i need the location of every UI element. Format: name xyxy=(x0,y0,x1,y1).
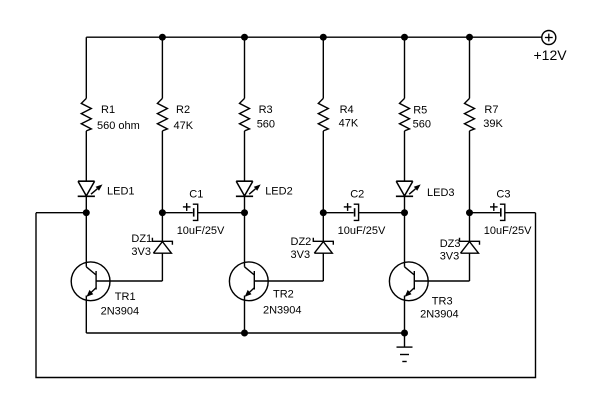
svg-text:DZ3: DZ3 xyxy=(440,238,461,250)
wire feedback loop (C3 right, bottom, left) xyxy=(36,213,536,378)
svg-text:R4: R4 xyxy=(340,104,354,116)
wire R4 to node D xyxy=(322,131,324,213)
transistor TR1 collector lead xyxy=(85,213,87,267)
LED LED3 triangle xyxy=(396,181,413,196)
resistor R5 xyxy=(400,98,410,130)
svg-text:560: 560 xyxy=(257,119,275,131)
svg-text:R5: R5 xyxy=(413,104,427,116)
wire rail to R3 xyxy=(244,37,246,98)
LED LED2 cathode bar xyxy=(236,195,253,197)
transistor TR3 base bar xyxy=(413,271,415,290)
wire rail to R5 xyxy=(404,37,406,98)
svg-text:R7: R7 xyxy=(484,104,498,116)
zener diode DZ2 triangle xyxy=(314,242,332,254)
zener diode DZ1 cathode bar xyxy=(152,238,172,245)
wire LED2 to node C xyxy=(244,196,246,212)
svg-text:2N3904: 2N3904 xyxy=(420,308,459,320)
svg-text:2N3904: 2N3904 xyxy=(263,305,302,317)
wire DZ2 to TR2 base row xyxy=(322,253,324,281)
transistor TR2 circle xyxy=(229,262,268,301)
node E (LED3 cathode / TR3 collector) xyxy=(401,209,408,216)
wire R2 to node B xyxy=(161,131,163,213)
svg-text:C3: C3 xyxy=(496,189,510,201)
transistor TR1 base bar xyxy=(95,271,97,290)
junction rail/R2 xyxy=(159,34,166,41)
LED LED2 anode bar xyxy=(236,180,253,182)
wire C3 right lead xyxy=(505,212,536,214)
wire DZ3 to TR3 base row xyxy=(469,253,471,281)
transistor TR3 emitter lead with arrow xyxy=(406,288,415,296)
svg-text:47K: 47K xyxy=(174,120,194,132)
LED LED3 cathode bar xyxy=(396,195,413,197)
wire to ground xyxy=(404,333,406,347)
zener diode DZ2 cathode bar xyxy=(313,238,333,245)
zener diode DZ3 cathode bar xyxy=(460,238,480,245)
svg-text:3V3: 3V3 xyxy=(131,246,151,258)
wire rail to R4 xyxy=(322,37,324,98)
wire C2 right lead xyxy=(359,212,405,214)
wire R3 to LED2 xyxy=(244,131,246,181)
zener diode DZ1 triangle xyxy=(153,242,171,254)
svg-text:LED1: LED1 xyxy=(107,186,135,198)
transistor TR2 emitter lead with arrow xyxy=(246,288,255,296)
wire node F to DZ3 xyxy=(469,213,471,242)
svg-text:TR2: TR2 xyxy=(273,289,294,301)
svg-text:C1: C1 xyxy=(189,189,203,201)
transistor TR2 base bar xyxy=(253,271,255,290)
wire node B to DZ1 xyxy=(161,213,163,242)
wire LED1 to node A xyxy=(85,196,87,212)
LED LED1 arrow xyxy=(91,189,97,194)
svg-text:10uF/25V: 10uF/25V xyxy=(338,225,386,237)
LED LED3 anode bar xyxy=(396,180,413,182)
svg-text:TR1: TR1 xyxy=(115,291,136,303)
svg-text:39K: 39K xyxy=(483,118,503,130)
LED LED1 triangle xyxy=(78,181,95,196)
transistor TR1 circle xyxy=(71,262,110,301)
wire feedback to node A xyxy=(36,212,86,214)
svg-text:C2: C2 xyxy=(350,189,364,201)
wire R1 to LED1 xyxy=(85,131,87,181)
LED LED1 anode bar xyxy=(78,180,95,182)
transistor TR3 circle xyxy=(389,262,428,301)
transistor TR2 collector lead xyxy=(244,213,246,267)
LED LED3 arrow xyxy=(409,189,415,194)
svg-text:2N3904: 2N3904 xyxy=(101,305,140,317)
svg-text:LED2: LED2 xyxy=(265,186,293,198)
wire DZ1 to TR1 base row xyxy=(161,253,163,281)
transistor TR3 collector lead xyxy=(404,213,406,267)
svg-text:DZ1: DZ1 xyxy=(131,233,152,245)
svg-text:R1: R1 xyxy=(101,104,115,116)
wire LED3 to node E xyxy=(404,196,406,212)
svg-text:TR3: TR3 xyxy=(432,296,453,308)
zener diode DZ3 triangle xyxy=(461,242,479,254)
capacitor C2 plus sign xyxy=(344,206,352,208)
capacitor C3 left plate xyxy=(500,208,502,216)
transistor TR1 emitter lead with arrow xyxy=(88,288,97,296)
resistor R2 xyxy=(157,98,167,130)
capacitor C1 right plate bracket xyxy=(193,204,198,220)
wire C2 left lead xyxy=(323,212,353,214)
node F (R7 / DZ3 / C3) xyxy=(466,209,473,216)
ground xyxy=(397,346,413,348)
svg-text:10uF/25V: 10uF/25V xyxy=(177,225,225,237)
junction rail/R3 xyxy=(241,34,248,41)
node D (R4 / DZ2 / C2) xyxy=(320,209,327,216)
resistor R4 xyxy=(318,98,328,130)
node C (LED2 cathode / TR2 collector) xyxy=(241,209,248,216)
wire C1 left lead xyxy=(162,212,192,214)
svg-text:3V3: 3V3 xyxy=(440,250,460,262)
svg-text:DZ2: DZ2 xyxy=(291,236,312,248)
wire rail to R1 xyxy=(85,37,87,98)
capacitor C3 plus sign xyxy=(490,206,498,208)
svg-text:3V3: 3V3 xyxy=(291,249,311,261)
junction TR2 emitter/bus xyxy=(241,330,248,337)
wire emitter bus xyxy=(86,332,404,334)
svg-text:47K: 47K xyxy=(339,118,359,130)
resistor R1 xyxy=(81,98,91,130)
wire C3 left lead xyxy=(470,212,500,214)
junction TR3 emitter/ground xyxy=(401,330,408,337)
resistor R7 xyxy=(465,98,475,130)
wire C1 right lead xyxy=(198,212,245,214)
wire R5 to LED3 xyxy=(404,131,406,181)
wire rail to R7 xyxy=(469,37,471,98)
node A (LED1 cathode / TR1 collector) xyxy=(83,209,90,216)
capacitor C2 left plate xyxy=(354,208,356,216)
wire node D to DZ2 xyxy=(322,213,324,242)
LED LED1 cathode bar xyxy=(78,195,95,197)
capacitor C2 right plate bracket xyxy=(354,204,359,220)
+12V terminal xyxy=(542,31,556,45)
wire TR3 base to zener branch xyxy=(414,280,469,282)
node B (R2 / DZ1 / C1) xyxy=(159,209,166,216)
wire +12V supply rail xyxy=(86,36,542,38)
svg-text:560: 560 xyxy=(413,119,431,131)
resistor R3 xyxy=(240,98,250,130)
junction rail/R4 xyxy=(320,34,327,41)
LED LED2 triangle xyxy=(236,181,253,196)
capacitor C3 right plate bracket xyxy=(500,204,505,220)
svg-text:+12V: +12V xyxy=(534,47,568,63)
wire TR1 base to zener branch xyxy=(96,280,162,282)
wire rail to R2 xyxy=(161,37,163,98)
LED LED2 arrow xyxy=(249,189,255,194)
wire R7 to node F xyxy=(469,131,471,213)
svg-text:R3: R3 xyxy=(259,104,273,116)
svg-text:R2: R2 xyxy=(176,104,190,116)
capacitor C1 left plate xyxy=(193,208,195,216)
junction rail/R7 xyxy=(466,34,473,41)
capacitor C1 plus sign xyxy=(183,206,191,208)
wire TR2 base to zener branch xyxy=(254,280,323,282)
svg-text:560 ohm: 560 ohm xyxy=(97,120,140,132)
svg-text:LED3: LED3 xyxy=(427,187,455,199)
junction rail/R5 xyxy=(401,34,408,41)
svg-text:10uF/25V: 10uF/25V xyxy=(484,225,532,237)
